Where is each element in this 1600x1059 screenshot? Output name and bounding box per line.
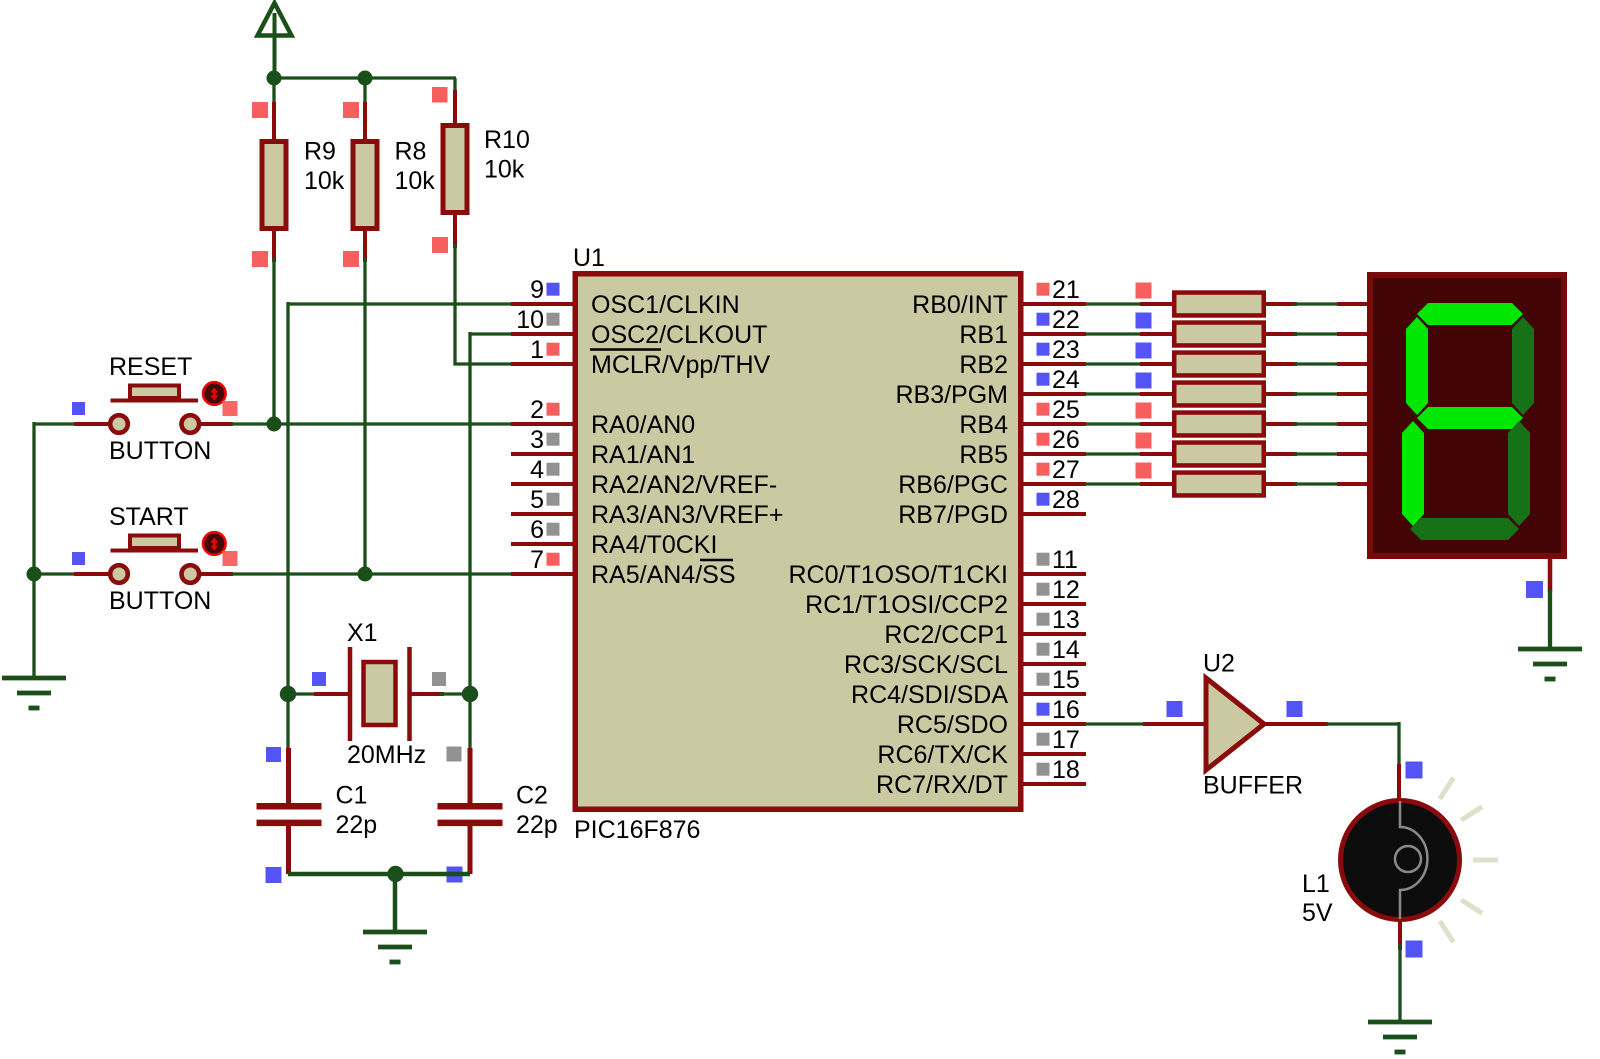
lamp bottom pin square xyxy=(1406,941,1423,958)
svg-text:START: START xyxy=(109,503,189,531)
svg-text:RC5/SDO: RC5/SDO xyxy=(897,711,1008,739)
R10 top pin square xyxy=(432,87,448,103)
display pin 5 xyxy=(1337,452,1369,456)
7-segment display body xyxy=(1370,275,1564,556)
R9 top pin xyxy=(272,102,276,139)
wire R8 top xyxy=(363,78,366,106)
U1 pin 14 RC3/SCK/SCL xyxy=(844,636,1086,679)
U1 pin 28 RB7/PGD xyxy=(898,486,1086,529)
svg-text:10k: 10k xyxy=(304,167,345,195)
wire RB3 to segment resistor xyxy=(1086,392,1146,395)
segment resistor 6 left pin xyxy=(1140,482,1174,486)
segment resistor 3 pin square xyxy=(1136,373,1152,389)
ground crystal xyxy=(363,932,427,962)
segment resistor 2 pin square xyxy=(1136,343,1152,359)
display segment C bottom-right (off) xyxy=(1508,421,1530,526)
segment resistor 6 right pin xyxy=(1264,482,1297,486)
U1 pin 2 RA0/AN0 xyxy=(511,396,695,439)
resistor R10 xyxy=(443,126,530,213)
R10 top pin xyxy=(453,90,457,123)
svg-text:3: 3 xyxy=(530,426,544,454)
segment resistor 3 left pin xyxy=(1140,392,1174,396)
R9 bottom pin square xyxy=(252,251,268,267)
U1 pin 11 RC0/T1OSO/T1CKI xyxy=(789,546,1087,589)
segment resistor row RB2 xyxy=(1174,353,1264,376)
U1 pin 10 OSC2/CLKOUT xyxy=(511,306,767,349)
svg-text:RC0/T1OSO/T1CKI: RC0/T1OSO/T1CKI xyxy=(789,561,1009,589)
U1 pin 5 RA3/AN3/VREF+ xyxy=(511,486,783,529)
wire to crystal ground xyxy=(393,874,398,933)
junction node cap bus to ground xyxy=(387,866,403,882)
svg-text:21: 21 xyxy=(1052,276,1080,304)
display pin 3 xyxy=(1337,392,1369,396)
junction node left rail START xyxy=(27,567,42,582)
segment resistor 5 left pin xyxy=(1140,452,1174,456)
svg-text:C2: C2 xyxy=(516,782,548,810)
svg-text:RB3/PGM: RB3/PGM xyxy=(895,381,1008,409)
ground lamp xyxy=(1368,1022,1432,1052)
U1 pin 16 RC5/SDO xyxy=(897,696,1086,739)
wire START to RA5 pin7 xyxy=(231,572,512,575)
U1 SS overline xyxy=(700,559,733,562)
crystal X1 xyxy=(288,619,470,769)
U1 pin 17 RC6/TX/CK xyxy=(877,726,1086,769)
display pin 4 xyxy=(1337,422,1369,426)
wire RB2 to segment resistor xyxy=(1086,362,1146,365)
svg-text:BUTTON: BUTTON xyxy=(109,437,211,465)
U1 pin 24 RB3/PGM xyxy=(895,366,1086,409)
buffer U2 output pin xyxy=(1263,722,1328,726)
segment resistor row RB6 xyxy=(1174,473,1264,496)
buffer U2 output square xyxy=(1287,701,1303,717)
svg-text:5: 5 xyxy=(530,486,544,514)
U1 pin 4 RA2/AN2/VREF- xyxy=(511,456,777,499)
wire resistor 0 to display xyxy=(1293,302,1341,305)
wire power rail horizontal xyxy=(274,76,456,79)
svg-text:RA2/AN2/VREF-: RA2/AN2/VREF- xyxy=(591,471,777,499)
buffer U2 input square xyxy=(1167,701,1183,717)
svg-text:RC3/SCK/SCL: RC3/SCK/SCL xyxy=(844,651,1008,679)
resistor R8 xyxy=(353,138,435,229)
display segment A top (lit) xyxy=(1417,303,1523,325)
svg-text:27: 27 xyxy=(1052,456,1080,484)
U1 pin 15 RC4/SDI/SDA xyxy=(851,666,1086,709)
wire RB4 to segment resistor xyxy=(1086,422,1146,425)
segment resistor 0 right pin xyxy=(1264,302,1297,306)
svg-text:4: 4 xyxy=(530,456,544,484)
svg-text:23: 23 xyxy=(1052,336,1080,364)
buffer U2 input pin xyxy=(1143,722,1208,726)
segment resistor 5 pin square xyxy=(1136,433,1152,449)
svg-text:RA3/AN3/VREF+: RA3/AN3/VREF+ xyxy=(591,501,783,529)
svg-text:X1: X1 xyxy=(347,619,378,647)
svg-text:OSC1/CLKIN: OSC1/CLKIN xyxy=(591,291,740,319)
svg-text:18: 18 xyxy=(1052,756,1080,784)
display segment G middle (lit) xyxy=(1417,407,1523,429)
svg-text:RA1/AN1: RA1/AN1 xyxy=(591,441,695,469)
svg-text:6: 6 xyxy=(530,516,544,544)
display segment E bottom-left (lit) xyxy=(1402,421,1424,526)
svg-text:BUFFER: BUFFER xyxy=(1203,772,1303,800)
display segment B top-right (off) xyxy=(1512,317,1534,415)
U1 pin 13 RC2/CCP1 xyxy=(884,606,1086,649)
C1 pin squares xyxy=(266,747,282,883)
wire RC5 to buffer xyxy=(1086,722,1146,725)
segment resistor 4 right pin xyxy=(1264,422,1297,426)
svg-text:7: 7 xyxy=(530,546,544,574)
svg-text:L1: L1 xyxy=(1302,870,1330,898)
svg-text:RA4/T0CKI: RA4/T0CKI xyxy=(591,531,717,559)
RESET actuate arrow xyxy=(203,382,226,405)
svg-text:PIC16F876: PIC16F876 xyxy=(574,816,700,844)
lamp top pin xyxy=(1397,764,1401,800)
wire RESET left to rail xyxy=(34,422,76,425)
display common pin square xyxy=(1526,581,1543,598)
power symbol VCC xyxy=(258,3,292,79)
segment resistor 3 right pin xyxy=(1264,392,1297,396)
push button RESET xyxy=(74,353,233,465)
svg-text:BUTTON: BUTTON xyxy=(109,587,211,615)
svg-text:22p: 22p xyxy=(336,811,378,839)
svg-text:RB6/PGC: RB6/PGC xyxy=(898,471,1008,499)
R8 bottom pin square xyxy=(343,251,359,267)
R10 bottom pin xyxy=(453,214,457,248)
R9 bottom pin xyxy=(272,231,276,262)
wire R8 bottom to RA5 net xyxy=(363,258,366,574)
START actuate arrow xyxy=(203,532,226,555)
svg-text:U2: U2 xyxy=(1203,650,1235,678)
capacitor C1 xyxy=(257,748,378,874)
svg-text:22p: 22p xyxy=(516,811,558,839)
svg-text:R8: R8 xyxy=(395,138,427,166)
wire RB0 to segment resistor xyxy=(1086,302,1146,305)
svg-text:U1: U1 xyxy=(573,244,605,272)
segment resistor 0 pin square xyxy=(1136,283,1152,299)
segment resistor 0 left pin xyxy=(1140,302,1174,306)
wire resistor 3 to display xyxy=(1293,392,1341,395)
svg-text:11: 11 xyxy=(1052,546,1078,574)
wire OSC2 to C2 xyxy=(468,694,471,752)
svg-text:RESET: RESET xyxy=(109,353,192,381)
svg-text:RC7/RX/DT: RC7/RX/DT xyxy=(876,771,1008,799)
junction node crystal left xyxy=(280,686,296,702)
wire lamp to ground xyxy=(1398,944,1401,1023)
segment resistor 6 pin square xyxy=(1136,463,1152,479)
wire left rail vertical xyxy=(32,422,35,676)
lamp bottom pin xyxy=(1398,919,1402,950)
svg-text:C1: C1 xyxy=(336,782,368,810)
wire OSC2 net xyxy=(470,332,512,696)
svg-text:RB0/INT: RB0/INT xyxy=(912,291,1008,319)
U1 pin 25 RB4 xyxy=(959,396,1086,439)
wire resistor 6 to display xyxy=(1293,482,1341,485)
segment resistor 2 left pin xyxy=(1140,362,1174,366)
lamp top pin square xyxy=(1406,762,1423,779)
wire resistor 4 to display xyxy=(1293,422,1341,425)
U1 pin 21 RB0/INT xyxy=(912,276,1086,319)
wire resistor 2 to display xyxy=(1293,362,1341,365)
svg-text:15: 15 xyxy=(1052,666,1080,694)
wire RESET to RA0 pin2 xyxy=(231,422,512,425)
wire R9 bottom to RA0 net xyxy=(272,258,275,424)
R8 top pin square xyxy=(343,102,359,118)
display pin 1 xyxy=(1337,332,1369,336)
push button START xyxy=(74,503,233,615)
op-amp U2 buffer xyxy=(1203,650,1303,800)
ground display xyxy=(1518,649,1582,679)
svg-text:RA5/AN4/SS: RA5/AN4/SS xyxy=(591,561,736,589)
svg-text:R9: R9 xyxy=(304,138,336,166)
segment resistor row RB1 xyxy=(1174,323,1264,346)
wire OSC1 net xyxy=(288,302,512,696)
svg-text:10: 10 xyxy=(516,306,544,334)
svg-text:5V: 5V xyxy=(1302,899,1333,927)
svg-text:RC1/T1OSI/CCP2: RC1/T1OSI/CCP2 xyxy=(805,591,1008,619)
svg-text:RC4/SDI/SDA: RC4/SDI/SDA xyxy=(851,681,1008,709)
display segment D bottom (off) xyxy=(1410,518,1519,540)
U1 pin 27 RB6/PGC xyxy=(898,456,1086,499)
lamp light rays xyxy=(1440,778,1498,942)
op-chip U1 PIC16F876 body xyxy=(573,244,1021,844)
svg-text:10k: 10k xyxy=(395,167,436,195)
crystal pin squares xyxy=(312,672,446,686)
U1 pin 18 RC7/RX/DT xyxy=(876,756,1086,799)
segment resistor 1 right pin xyxy=(1264,332,1297,336)
junction node RESET/R9/RA0 xyxy=(267,417,282,432)
ground left rail xyxy=(2,678,66,708)
segment resistor 4 pin square xyxy=(1136,403,1152,419)
U1 pin 7 RA5/AN4/SS xyxy=(511,546,736,589)
U1 pin 26 RB5 xyxy=(959,426,1086,469)
wire buffer to lamp xyxy=(1325,722,1399,768)
svg-text:22: 22 xyxy=(1052,306,1080,334)
U1 pin 23 RB2 xyxy=(959,336,1086,379)
R8 bottom pin xyxy=(363,231,367,262)
segment resistor row RB3 xyxy=(1174,383,1264,406)
segment resistor 1 pin square xyxy=(1136,313,1152,329)
R10 bottom pin square xyxy=(432,237,448,253)
svg-text:RC6/TX/CK: RC6/TX/CK xyxy=(877,741,1008,769)
wire START left to rail xyxy=(34,572,76,575)
svg-text:RA0/AN0: RA0/AN0 xyxy=(591,411,695,439)
wire display to ground xyxy=(1548,590,1552,650)
junction node crystal right xyxy=(462,686,478,702)
resistor R9 xyxy=(262,138,345,229)
display common pin xyxy=(1548,558,1553,592)
U1 pin 1 MCLR/Vpp/THV xyxy=(511,336,771,379)
junction node at R9 top xyxy=(267,71,282,86)
segment resistor row RB4 xyxy=(1174,413,1264,436)
svg-text:1: 1 xyxy=(530,336,544,364)
START pin squares xyxy=(72,551,238,566)
svg-text:24: 24 xyxy=(1052,366,1080,394)
svg-text:28: 28 xyxy=(1052,486,1080,514)
wire R9 top xyxy=(272,78,275,106)
U1 pin 3 RA1/AN1 xyxy=(511,426,695,469)
U1 pin 9 OSC1/CLKIN xyxy=(511,276,740,319)
svg-text:12: 12 xyxy=(1052,576,1080,604)
display pin 0 xyxy=(1337,302,1369,306)
junction node at R8 top xyxy=(358,71,373,86)
wire RB5 to segment resistor xyxy=(1086,452,1146,455)
wire R10 top xyxy=(453,78,456,94)
C2 pin squares xyxy=(447,747,463,883)
svg-text:RB5: RB5 xyxy=(959,441,1008,469)
svg-text:26: 26 xyxy=(1052,426,1080,454)
svg-text:RB1: RB1 xyxy=(959,321,1008,349)
svg-text:9: 9 xyxy=(530,276,544,304)
wire capacitor bottom bus xyxy=(288,872,470,877)
svg-text:14: 14 xyxy=(1052,636,1080,664)
svg-text:R10: R10 xyxy=(484,126,530,154)
segment resistor 1 left pin xyxy=(1140,332,1174,336)
wire RB1 to segment resistor xyxy=(1086,332,1146,335)
segment resistor row RB5 xyxy=(1174,443,1264,466)
svg-text:20MHz: 20MHz xyxy=(347,741,426,769)
R8 top pin xyxy=(363,102,367,139)
junction node START/R8/RA5 xyxy=(358,567,373,582)
segment resistor row RB0 xyxy=(1174,293,1264,316)
svg-text:13: 13 xyxy=(1052,606,1080,634)
svg-text:RC2/CCP1: RC2/CCP1 xyxy=(884,621,1008,649)
segment resistor 4 left pin xyxy=(1140,422,1174,426)
svg-text:10k: 10k xyxy=(484,156,525,184)
U1 MCLR overline xyxy=(590,348,661,351)
U1 pin 22 RB1 xyxy=(959,306,1086,349)
display pin 6 xyxy=(1337,482,1369,486)
U1 pin 6 RA4/T0CKI xyxy=(511,516,717,559)
segment resistor 5 right pin xyxy=(1264,452,1297,456)
svg-text:RB4: RB4 xyxy=(959,411,1008,439)
wire OSC1 to C1 xyxy=(286,694,289,752)
display segment F top-left (lit) xyxy=(1406,317,1428,415)
lamp L1 xyxy=(1302,801,1460,928)
wire RB6 to segment resistor xyxy=(1086,482,1146,485)
svg-text:RB2: RB2 xyxy=(959,351,1008,379)
svg-text:MCLR/Vpp/THV: MCLR/Vpp/THV xyxy=(591,351,771,379)
svg-text:OSC2/CLKOUT: OSC2/CLKOUT xyxy=(591,321,767,349)
R9 top pin square xyxy=(252,102,268,118)
svg-text:17: 17 xyxy=(1052,726,1080,754)
U1 pin 12 RC1/T1OSI/CCP2 xyxy=(805,576,1086,619)
wire R10 bottom to MCLR xyxy=(453,244,456,364)
svg-text:16: 16 xyxy=(1052,696,1080,724)
RESET pin squares xyxy=(72,401,238,416)
svg-text:RB7/PGD: RB7/PGD xyxy=(898,501,1008,529)
wire resistor 5 to display xyxy=(1293,452,1341,455)
wire resistor 1 to display xyxy=(1293,332,1341,335)
capacitor C2 xyxy=(438,748,558,874)
svg-text:2: 2 xyxy=(530,396,544,424)
segment resistor 2 right pin xyxy=(1264,362,1297,366)
svg-text:25: 25 xyxy=(1052,396,1080,424)
display pin 2 xyxy=(1337,362,1369,366)
